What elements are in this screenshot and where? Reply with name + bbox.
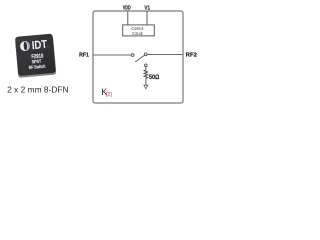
IDT logo registered mark <box>47 46 48 47</box>
control circuit block U1 <box>123 25 155 36</box>
IDT logo circle <box>20 41 31 52</box>
chip side face <box>15 36 56 77</box>
switch lever (open) <box>135 55 144 62</box>
resistor 50 ohm <box>144 70 148 79</box>
chip package photo (2x2mm 8-DFN) <box>15 34 57 78</box>
wire RF1 <box>94 54 132 56</box>
switch contact node A <box>131 54 134 57</box>
wire node C to resistor <box>145 67 147 70</box>
svg-text:V1: V1 <box>144 5 150 11</box>
svg-text:RF2: RF2 <box>186 52 197 58</box>
svg-text:50Ω: 50Ω <box>149 74 159 81</box>
IDT logo dark gap <box>23 42 27 51</box>
ground arrow <box>144 85 148 89</box>
shunt contact node C <box>144 64 147 67</box>
wire RF2 <box>147 54 183 56</box>
chip body <box>15 34 56 76</box>
wire V1 to control circuit <box>146 12 148 25</box>
wire resistor to ground arrow <box>145 78 147 85</box>
svg-text:Circuit: Circuit <box>132 31 143 36</box>
svg-text:[2]: [2] <box>106 92 112 98</box>
switch contact node B <box>144 53 147 56</box>
svg-text:2 x 2 mm 8-DFN: 2 x 2 mm 8-DFN <box>7 85 68 95</box>
schematic outer box <box>93 11 183 103</box>
svg-text:RF1: RF1 <box>79 53 89 59</box>
svg-text:IDT: IDT <box>31 38 47 52</box>
IDT logo lens <box>26 42 30 50</box>
wire VDD to control circuit <box>127 12 129 25</box>
svg-text:VDD: VDD <box>123 5 131 11</box>
